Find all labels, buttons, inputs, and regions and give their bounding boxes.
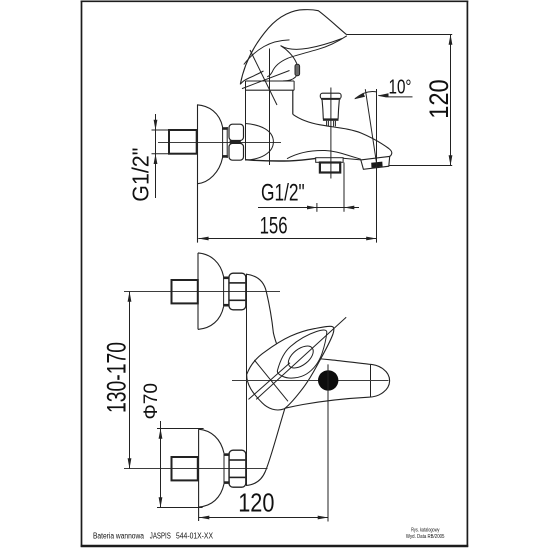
handle axis line [256,317,346,399]
title text right small [406,527,445,540]
center line upper inlet [124,291,280,293]
handle inner tail curve [267,36,347,77]
extension lines pipe diameter [152,129,170,131]
svg-text:Wyd. Data RB/2005: Wyd. Data RB/2005 [406,534,445,540]
upper pipe nipple [172,280,198,303]
bell collar (top view) [222,127,224,158]
dimension 120 vertical (top view) [347,34,452,36]
upper tube curve into body [246,274,278,346]
center line lower inlet [124,468,268,470]
svg-text:156: 156 [260,213,288,240]
body back edge vertical [246,274,248,486]
dimension 120 horizontal [199,517,328,519]
svg-text:10°: 10° [389,76,412,98]
handle ridge line [244,40,290,65]
aerator (top view) [361,156,390,169]
svg-text:Bateria wannowa: Bateria wannowa [93,531,144,540]
wall pipe nipple G1/2 (top view) [169,130,197,154]
upper bell collar [223,277,225,307]
spout underside right [343,158,361,160]
vertical line through diverter [327,364,329,521]
knob center line [330,88,332,179]
handle middle contour [277,330,326,378]
svg-text:120: 120 [238,490,274,518]
svg-text:G1/2": G1/2" [261,180,305,207]
mixer body (top view) [246,80,294,82]
dimension 156 horizontal [198,238,376,240]
lower tube curve into body [246,408,285,485]
spout root fillet line [287,150,361,159]
valve cross lines [254,360,288,401]
upper union nut [229,273,246,310]
svg-text:Rys. katalogowy: Rys. katalogowy [411,527,440,533]
body center axis vertical [269,49,271,166]
title text left [93,531,214,540]
svg-text:G1/2": G1/2" [128,148,154,202]
neck loop [281,46,298,81]
lower bell collar [223,453,225,484]
center line spout axis over handle [232,380,389,382]
spout bar (front view) [285,358,390,409]
svg-text:544-01X-XX: 544-01X-XX [176,531,214,540]
dimension phi70 [160,421,162,508]
lever handle teardrop (front view) [247,326,334,410]
lower union nut [229,450,246,487]
texts top view [128,76,455,239]
diverter knob (top view) [320,93,341,99]
texts lower view [101,342,274,518]
svg-text:130-170: 130-170 [101,342,131,413]
lower pipe nipple [172,457,198,480]
handle inner ellipse [284,342,317,372]
dimension line G1/2 left [155,114,157,198]
blade bottom edge [240,71,263,84]
escutcheon bell (top view) [197,105,199,243]
union nut (top view) [229,124,244,140]
lower escutcheon bell [198,429,200,521]
upper escutcheon bell [197,253,199,330]
svg-text:JASPIS: JASPIS [150,531,171,540]
shower outlet G1/2 (top view) [316,158,343,163]
10 degree annotation [365,89,377,165]
center line inlet axis (top view) [158,142,281,144]
lever handle (top view) [240,10,346,85]
handle indicator cap [295,64,300,75]
drawing frame border [81,1,469,548]
svg-text:Φ70: Φ70 [140,383,162,420]
body inlet boss (top view) [245,124,273,161]
dimension G1/2 shower outlet [258,207,359,209]
svg-text:120: 120 [424,79,454,119]
handle construction lines [250,50,277,105]
handle inner upper curve [281,39,342,50]
dimension 130-170 [129,292,131,469]
spout top silhouette (top view) [293,114,392,156]
diverter knob circle (front view) [318,370,338,390]
